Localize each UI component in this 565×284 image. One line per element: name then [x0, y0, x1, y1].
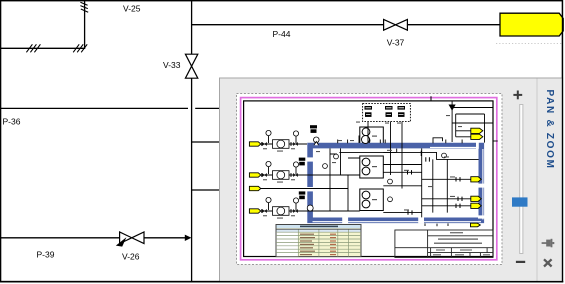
svg-text:V-37: V-37: [387, 37, 405, 47]
mini equipment box 2: [360, 156, 384, 178]
vertical main pipe: [191, 1, 193, 281]
hatch marks on vertical pipe: [80, 2, 88, 12]
valve V-26: [120, 232, 144, 244]
blue highlighted pipe loop: [310, 146, 481, 221]
pan and zoom panel: [220, 78, 563, 282]
mini pump glyph pairs near blue line: [299, 125, 317, 199]
mini row 1 pipe and symbols: [261, 136, 307, 146]
mini yellow dest tags right: [471, 128, 483, 227]
mini row 3 pipe and symbols: [261, 203, 360, 213]
faint page break dotted line: [496, 43, 562, 45]
mini yellow source tags left: [249, 142, 260, 213]
mini equipment box 3: [360, 189, 384, 211]
zoom minus button: [516, 261, 525, 263]
mini flare arrow: [449, 105, 456, 111]
pipe P-39: [0, 237, 186, 239]
mini flare lines: [452, 101, 493, 142]
stub pipe upper: [192, 141, 220, 143]
svg-text:V-33: V-33: [163, 60, 181, 70]
zoom plus button: [513, 91, 522, 100]
mini under-blue piping: [339, 149, 421, 156]
blue loop jump gaps: [307, 142, 485, 223]
pin icon: [542, 239, 555, 248]
panel title strip separator: [536, 79, 538, 282]
mini page white with dashed border: [237, 94, 503, 265]
mini valve tick pairs right: [408, 157, 463, 215]
mini pumps in dashed box: [365, 106, 406, 117]
hatch marks group 2 on horizontal pipe: [73, 44, 87, 52]
svg-text:V-25: V-25: [123, 4, 141, 14]
mini elbow above blue: [433, 138, 443, 143]
mini mid-section instruments: [323, 154, 339, 168]
window border bottom redraw: [0, 281, 563, 283]
mini title block texts: [433, 232, 490, 255]
svg-text:V-26: V-26: [122, 252, 140, 262]
window border right redraw: [562, 0, 563, 282]
close icon: [544, 259, 552, 266]
slider track: [520, 105, 523, 254]
stub pipe lower: [192, 189, 220, 191]
yellow off-page tag: [500, 13, 563, 36]
pipe P-44: [192, 24, 500, 26]
mini ticks below blue bottom: [425, 223, 448, 226]
mini title block: [395, 230, 493, 258]
mini row 2b pipe: [261, 189, 348, 212]
svg-text:P-44: P-44: [273, 29, 291, 39]
valve V-37: [384, 19, 408, 30]
mini ticks on blue top: [338, 136, 462, 144]
mini mid-section verticals: [330, 148, 360, 211]
slider handle: [512, 197, 528, 206]
mini tiny text labels: [263, 115, 462, 219]
mini row 2 pipe and symbols: [261, 167, 360, 177]
mini green equipment table: [276, 225, 361, 257]
valve V-33: [185, 54, 197, 78]
svg-text:P-39: P-39: [37, 250, 55, 260]
mini equipment box 1: [360, 127, 384, 147]
svg-text:P-36: P-36: [3, 117, 21, 127]
hatch marks group 1 on horizontal pipe: [26, 44, 40, 52]
mini big circle instrument on blue top: [362, 136, 370, 144]
arrowhead into vertical pipe: [185, 235, 192, 241]
blue loop inner white stripes: [313, 147, 483, 221]
pipe P-36: [0, 107, 220, 109]
mini instrument on blue top left: [314, 137, 320, 145]
mini dashed battery-limit box: [363, 104, 411, 122]
svg-text:PAN & ZOOM: PAN & ZOOM: [544, 90, 555, 170]
mini tick above frame: [430, 96, 432, 101]
mini stems below dashed box: [368, 122, 402, 189]
mini page magenta border: [241, 98, 497, 260]
valve V-26 flow arrow: [116, 237, 127, 246]
mini right-section piping: [383, 123, 497, 217]
mini drawing frame: [244, 101, 493, 257]
mini scattered instruments right: [307, 153, 446, 211]
pipe elbow top-left (line under V-25): [0, 1, 85, 48]
